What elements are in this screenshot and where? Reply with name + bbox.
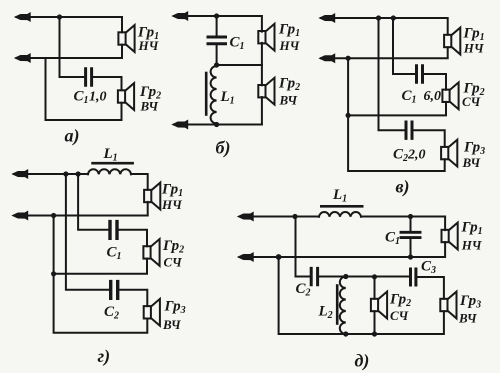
capacitor C1 (б)	[208, 37, 226, 44]
wire: top input to Гр1 top (в)	[321, 18, 448, 35]
svg-text:C1: C1	[402, 88, 417, 106]
wire: C1 to Гр2 top (в)	[424, 74, 446, 90]
node on top wire 2 (в)	[391, 15, 396, 20]
speaker Гр1 (б)	[258, 24, 274, 51]
node on top wire (б)	[214, 13, 219, 18]
svg-text:C1: C1	[107, 245, 122, 263]
svg-text:д): д)	[355, 351, 370, 372]
input arrow bottom (в)	[320, 54, 335, 62]
inductor L1 core bar (б)	[205, 73, 208, 115]
capacitor C2 (г)	[111, 282, 118, 299]
wire: mid return to Гр2 bottom (в)	[348, 102, 446, 116]
svg-text:НЧ: НЧ	[161, 197, 183, 212]
svg-text:б): б)	[216, 138, 231, 159]
wire: C2 to Гр3 top (г)	[119, 290, 147, 306]
wire: left drop, bottom rail, Гр3 bottom stub (д)	[279, 257, 444, 334]
inductor L1 core bar (г)	[93, 162, 133, 165]
svg-text:C1: C1	[385, 230, 400, 248]
svg-text:ВЧ: ВЧ	[462, 155, 482, 170]
svg-text:L1: L1	[332, 187, 347, 205]
capacitor C1 (г)	[110, 222, 117, 239]
inductor L1 coil (г)	[88, 169, 131, 174]
capacitor C1 (д)	[401, 232, 420, 237]
svg-text:Гр1: Гр1	[278, 22, 300, 40]
svg-text:L1: L1	[103, 146, 118, 164]
speaker Гр1 (д)	[442, 223, 458, 250]
svg-text:1,0: 1,0	[89, 90, 107, 105]
input arrow bottom (б)	[173, 121, 188, 129]
wire: second input to Гр1 bottom (г)	[14, 202, 148, 216]
capacitor C2 (в)	[406, 122, 412, 138]
svg-text:Гр3: Гр3	[459, 293, 481, 311]
svg-text:6,0: 6,0	[424, 89, 442, 104]
wire: top input to Гр1 top (б)	[174, 16, 262, 32]
wire: right rail Гр1 bottom to Гр2 top (б)	[261, 43, 263, 85]
input arrow top (г)	[13, 170, 28, 178]
svg-text:ВЧ: ВЧ	[458, 311, 478, 326]
wire: C3 to Гр3 top (д)	[417, 277, 444, 299]
node C1 top (д)	[408, 214, 413, 219]
wire: branch from top node down to C1 (a)	[60, 17, 85, 77]
input arrow bottom (a)	[16, 54, 31, 62]
wire: return rail and bottom link to Гр2 (a)	[46, 58, 122, 120]
speaker Гр2 (г)	[143, 239, 159, 266]
wire: return rail, bottom wire, Гр3 bottom stub (в)	[348, 58, 445, 171]
node L2 top (д)	[343, 274, 348, 279]
inductor L2 core bar (д)	[336, 286, 339, 324]
wire: L1 to Гр1 top (д)	[361, 217, 445, 231]
node on second wire (г)	[51, 213, 56, 218]
inductor L1 core bar (д)	[321, 205, 362, 208]
svg-text:C1: C1	[230, 35, 245, 53]
node on second wire (в)	[346, 56, 351, 61]
wire: Гр2 bottom stub (б)	[261, 97, 263, 124]
speaker Гр2 (в)	[442, 82, 458, 109]
wire: C1 top lead (д)	[410, 217, 412, 231]
node on top wire 2 (г)	[76, 171, 81, 176]
node on return rail (в)	[346, 113, 351, 118]
speaker Гр3 (д)	[440, 292, 456, 319]
node bottom (б)	[214, 122, 219, 127]
wire: mid link to right rail (б)	[217, 64, 262, 66]
svg-text:C1: C1	[74, 89, 89, 107]
svg-text:C2: C2	[393, 147, 408, 165]
svg-text:Гр2: Гр2	[162, 238, 184, 256]
wire: C1 feed from top wire (г)	[78, 174, 108, 230]
wire: mid return to Гр2 bottom (г)	[54, 259, 147, 274]
svg-text:Гр2: Гр2	[389, 292, 411, 310]
wire: top input to Гр1 top (a)	[17, 17, 123, 32]
wire: top input to L1 (д)	[240, 216, 320, 218]
wire: C1 to Гр2 top (г)	[119, 230, 147, 246]
wire: C1 to mid node (б)	[216, 46, 218, 65]
svg-text:Гр2: Гр2	[278, 76, 300, 94]
svg-text:НЧ: НЧ	[463, 41, 485, 56]
svg-text:ВЧ: ВЧ	[140, 99, 160, 114]
wire: C2 to Гр3 top (в)	[414, 130, 445, 147]
node Гр2 top (д)	[372, 274, 377, 279]
node on second wire (д)	[276, 254, 282, 260]
svg-text:НЧ: НЧ	[138, 38, 160, 53]
speaker Гр2 (д)	[371, 292, 387, 319]
svg-text:C2: C2	[104, 304, 119, 322]
wire: C2 to L2 / Гр2 / C3 rail (д)	[319, 276, 409, 278]
svg-text:НЧ: НЧ	[279, 38, 301, 53]
svg-text:Гр1: Гр1	[461, 220, 483, 238]
wire: C1 bottom lead (д)	[410, 239, 412, 257]
inductor L1 coil (д)	[319, 212, 361, 217]
svg-text:C3: C3	[421, 259, 436, 277]
speaker Гр3 (г)	[144, 299, 160, 326]
inductor L2 coil (д)	[340, 277, 346, 335]
node mid (б)	[214, 62, 219, 67]
wire: Гр2 top stub (д)	[374, 277, 376, 299]
wire: C2 feed from top wire (в)	[379, 18, 405, 130]
svg-text:СЧ: СЧ	[164, 255, 183, 270]
wire: top input to L1 (г)	[14, 173, 88, 175]
svg-text:СЧ: СЧ	[390, 308, 409, 323]
node C1 bottom (д)	[408, 254, 413, 259]
input arrow bottom (д)	[239, 253, 254, 261]
speaker Гр3 (в)	[441, 140, 457, 167]
wire: C1 feed from top wire (в)	[393, 18, 415, 74]
svg-text:СЧ: СЧ	[462, 94, 481, 109]
node Гр2 bottom (д)	[372, 331, 377, 336]
svg-text:L1: L1	[220, 89, 235, 107]
speaker Гр2 (a)	[118, 83, 134, 110]
input arrow top (б)	[173, 12, 188, 20]
speaker Гр1 (г)	[144, 183, 160, 210]
wire: C2 feed from top wire (г)	[66, 174, 109, 290]
speaker Гр1 (a)	[118, 25, 134, 52]
wire: second input to Гр1 bottom (д)	[240, 242, 446, 257]
input arrow top (в)	[320, 14, 335, 22]
svg-text:C2: C2	[296, 281, 311, 299]
wire: C1 to Гр2 top (a)	[93, 77, 121, 90]
wire: bottom input to Гр1 bottom (a)	[17, 45, 123, 58]
capacitor C1 (a)	[86, 69, 92, 86]
wire: return rail, bottom wire, Гр3 bottom stub (г)	[54, 216, 148, 333]
svg-text:ВЧ: ВЧ	[162, 317, 182, 332]
node on top wire left (д)	[292, 214, 297, 219]
svg-text:ВЧ: ВЧ	[279, 93, 299, 108]
node on top wire 1 (г)	[63, 171, 68, 176]
capacitor C2 (д)	[311, 268, 317, 284]
wire: Гр2 bottom stub (д)	[374, 311, 376, 334]
node on return rail (г)	[51, 271, 56, 276]
speaker Гр1 (в)	[444, 28, 460, 55]
node L2 bottom (д)	[343, 331, 348, 336]
capacitor C1 (в)	[417, 66, 423, 83]
node on top wire 1 (в)	[376, 15, 381, 20]
svg-text:Гр3: Гр3	[164, 299, 186, 317]
svg-text:в): в)	[396, 177, 410, 198]
wire: second input (в)	[321, 47, 448, 58]
svg-text:НЧ: НЧ	[461, 238, 483, 253]
input arrow top (a)	[16, 13, 31, 21]
wire: bottom input (б)	[174, 124, 262, 126]
speaker Гр2 (б)	[258, 78, 274, 105]
svg-text:2,0: 2,0	[407, 148, 426, 163]
input arrow top (д)	[239, 213, 254, 221]
capacitor C3 (д)	[411, 269, 416, 285]
svg-text:а): а)	[65, 126, 80, 147]
svg-text:L2: L2	[318, 304, 333, 322]
wire: C2 feed from top node (д)	[296, 217, 310, 277]
input arrow bottom (г)	[13, 212, 28, 220]
svg-text:г): г)	[98, 346, 111, 367]
wire: top node down to C1 (б)	[216, 16, 218, 35]
wire: L1 to Гр1 top (г)	[131, 174, 148, 190]
node on top wire (a)	[57, 14, 62, 19]
inductor L1 coil (б)	[211, 65, 217, 125]
